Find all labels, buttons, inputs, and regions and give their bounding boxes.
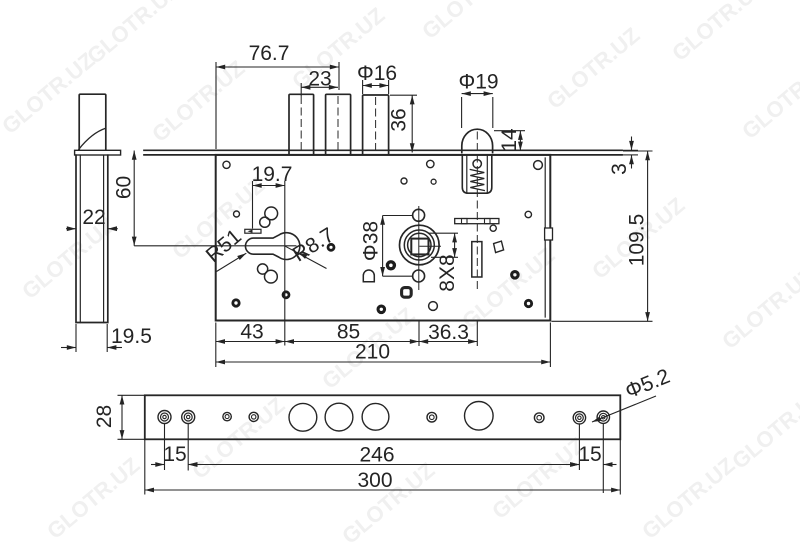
svg-text:43: 43 [240, 321, 263, 344]
svg-text:76.7: 76.7 [249, 42, 290, 65]
svg-text:36: 36 [388, 108, 411, 131]
svg-text:19.5: 19.5 [111, 325, 152, 348]
svg-text:Φ19: Φ19 [458, 71, 498, 94]
svg-text:28: 28 [93, 405, 116, 428]
svg-text:23: 23 [308, 68, 331, 91]
svg-text:109.5: 109.5 [626, 214, 649, 267]
svg-text:19.7: 19.7 [252, 163, 293, 186]
svg-text:8X8: 8X8 [436, 254, 459, 291]
svg-text:14: 14 [498, 128, 521, 152]
svg-text:60: 60 [113, 176, 136, 199]
svg-text:15: 15 [578, 443, 601, 466]
svg-text:300: 300 [357, 469, 392, 492]
svg-text:15: 15 [163, 443, 186, 466]
svg-text:Φ16: Φ16 [357, 62, 397, 85]
svg-text:22: 22 [82, 206, 105, 229]
svg-text:36.3: 36.3 [428, 321, 469, 344]
svg-text:246: 246 [359, 444, 394, 467]
svg-text:3: 3 [608, 163, 631, 175]
svg-text:Φ38: Φ38 [360, 221, 383, 261]
svg-text:210: 210 [355, 341, 390, 364]
